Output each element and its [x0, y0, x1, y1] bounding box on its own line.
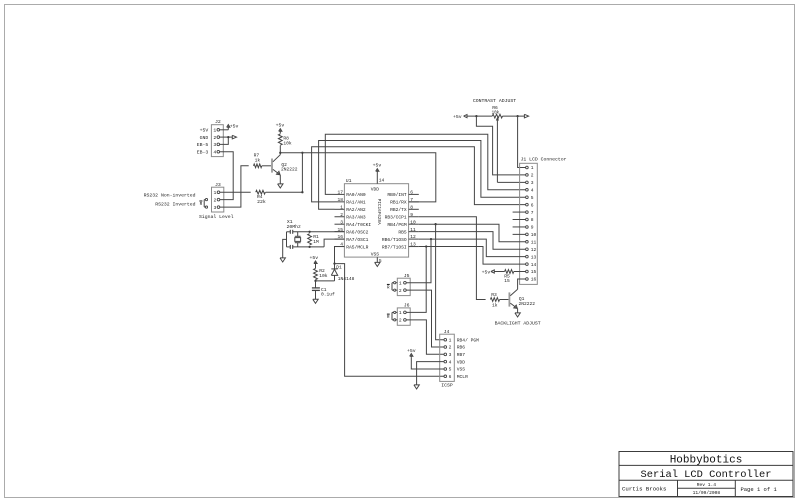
jumper bracket J3 pins 2-3: [199, 199, 207, 209]
svg-text:RS232 Inverted: RS232 Inverted: [155, 201, 195, 207]
wire J2 pin4 to J3 pin2: [220, 152, 234, 200]
wire +5V to J1 pin2: [476, 116, 525, 175]
wire Q2 collector: [279, 146, 281, 155]
svg-text:10: 10: [410, 219, 416, 225]
wire Q2 emitter to ground: [279, 175, 281, 184]
IC U1 VSS pin 5: [371, 251, 382, 264]
wire RA1 to J1 pin6: [312, 147, 526, 205]
transistor Q2 2N2222: [272, 155, 298, 175]
wire J5 pin2 to J4 pin2: [406, 290, 444, 347]
IC U1 part name: [376, 199, 381, 225]
resistor R8: [278, 134, 292, 146]
wire collector line to RB1/RX: [280, 153, 436, 202]
svg-text:2: 2: [531, 173, 534, 179]
svg-text:J4: J4: [444, 329, 450, 335]
svg-text:6: 6: [531, 202, 534, 208]
wire R5 to J1 pin15: [514, 271, 526, 273]
svg-text:Page 1 of 1: Page 1 of 1: [740, 486, 777, 493]
svg-text:RB7: RB7: [457, 352, 466, 358]
svg-text:RB4/PGM: RB4/PGM: [387, 222, 407, 228]
svg-text:1M: 1M: [313, 239, 319, 245]
svg-text:18: 18: [337, 197, 343, 203]
ground at C1: [313, 299, 318, 303]
jumper J5: [387, 273, 410, 296]
wire +5V to R5: [494, 271, 504, 273]
svg-text:R4: R4: [257, 194, 263, 200]
resistor R5: [504, 270, 514, 284]
svg-text:1N4148: 1N4148: [338, 276, 355, 282]
junction J2 pins 2-3: [227, 136, 229, 138]
svg-text:RB7/T1OSI: RB7/T1OSI: [382, 244, 407, 250]
label Signal Level: [199, 214, 234, 220]
svg-text:17: 17: [337, 190, 343, 196]
svg-text:13: 13: [410, 242, 416, 248]
junction MCLR node: [333, 262, 335, 264]
resistor R7: [254, 153, 262, 168]
svg-text:1: 1: [213, 128, 216, 134]
svg-text:3: 3: [340, 219, 343, 225]
ground at crystal: [280, 258, 285, 262]
svg-text:J1 LCD Connector: J1 LCD Connector: [521, 157, 567, 163]
label BACKLIGHT ADJUST: [495, 321, 541, 327]
label RS232 Non-inverted: [144, 192, 196, 198]
svg-text:1: 1: [340, 204, 343, 210]
svg-text:RB1/RX: RB1/RX: [390, 200, 407, 206]
label RS232 Inverted: [155, 201, 195, 207]
power +5V at R5: [482, 269, 495, 275]
svg-text:VSS: VSS: [457, 367, 466, 373]
IC U1 VDD pin 14: [371, 174, 385, 192]
svg-text:6: 6: [410, 190, 413, 196]
svg-text:11: 11: [410, 227, 416, 233]
junction RB6: [430, 238, 432, 240]
potentiometer R6: [492, 105, 503, 118]
svg-text:1: 1: [531, 165, 534, 171]
junction R1 bottom: [308, 246, 310, 248]
svg-text:3: 3: [213, 142, 216, 148]
port arrow at J2 pin2: [232, 135, 236, 139]
svg-text:RA7/OSC1: RA7/OSC1: [346, 237, 368, 243]
svg-text:3: 3: [213, 205, 216, 211]
svg-text:22k: 22k: [257, 199, 266, 205]
wire RA0 to J1 pin4: [325, 134, 525, 194]
svg-text:2N2222: 2N2222: [519, 301, 536, 307]
svg-text:15: 15: [504, 278, 510, 284]
svg-text:RB5: RB5: [398, 229, 407, 235]
svg-text:U1: U1: [346, 178, 352, 184]
resistor R4: [256, 190, 266, 205]
ground at Q2 emitter: [278, 184, 283, 188]
wire J3 pin1 to R4: [220, 191, 251, 193]
wire J4 pin5 to +5V: [411, 358, 444, 369]
resistor R2: [314, 268, 328, 280]
stub J1 pin10: [513, 233, 526, 235]
power +5V at J4: [407, 348, 416, 358]
svg-text:Rev 1.4: Rev 1.4: [697, 482, 717, 488]
svg-text:2: 2: [213, 197, 216, 203]
svg-text:7: 7: [531, 210, 534, 216]
ground at U1 VSS: [375, 262, 380, 266]
junction R1 top: [308, 231, 310, 233]
svg-text:14: 14: [379, 178, 385, 184]
junction R2/C1/D1: [314, 280, 316, 282]
svg-text:+5v: +5v: [407, 348, 416, 354]
svg-text:Serial LCD Controller: Serial LCD Controller: [641, 469, 772, 481]
svg-text:10k: 10k: [492, 111, 500, 116]
svg-text:2: 2: [399, 288, 402, 294]
ground at Q1 emitter: [515, 313, 520, 317]
power +5V at U1 VDD: [373, 163, 382, 174]
svg-text:1k: 1k: [255, 158, 261, 164]
stub J1 pin7: [513, 211, 526, 213]
svg-text:+5v: +5v: [309, 255, 318, 261]
power +5V at J2: [227, 123, 239, 129]
svg-text:RA3/AN3: RA3/AN3: [346, 214, 366, 220]
svg-text:2: 2: [399, 318, 402, 324]
svg-text:RB0/INT: RB0/INT: [387, 192, 407, 198]
capacitor C1: [312, 281, 335, 299]
svg-text:RB6: RB6: [457, 345, 466, 351]
wire pot right: [503, 115, 525, 117]
svg-text:5: 5: [531, 195, 534, 201]
wire J6 pin2 to J4 pin3: [406, 320, 444, 354]
junction RX at R4 line: [301, 191, 303, 193]
svg-text:VDD: VDD: [457, 359, 466, 365]
svg-text:ICSP: ICSP: [441, 382, 453, 388]
svg-text:6: 6: [449, 374, 452, 380]
svg-text:Hobbybotics: Hobbybotics: [670, 454, 743, 466]
svg-text:R6: R6: [492, 105, 498, 111]
connector J3 pins: [213, 190, 219, 211]
svg-text:1: 1: [399, 280, 402, 286]
svg-text:+5v: +5v: [482, 269, 491, 275]
svg-text:14: 14: [531, 262, 537, 268]
IC U1 left pins: [335, 190, 372, 251]
svg-text:VSS: VSS: [371, 251, 380, 257]
svg-text:20Mhz: 20Mhz: [287, 224, 302, 230]
title block: [619, 452, 793, 497]
svg-text:9: 9: [410, 212, 413, 218]
wire OSC2 line: [293, 231, 345, 233]
svg-text:RB2/TX: RB2/TX: [390, 207, 407, 213]
svg-text:3: 3: [449, 352, 452, 358]
svg-text:R: R: [200, 202, 203, 207]
wire +5V to pot: [467, 115, 492, 117]
svg-text:RB3/CCP1: RB3/CCP1: [385, 214, 407, 220]
svg-text:+5v: +5v: [373, 163, 382, 169]
svg-text:8: 8: [410, 204, 413, 210]
jumper J6: [387, 303, 410, 326]
svg-text:J5: J5: [404, 273, 410, 279]
svg-text:PIC16F628A: PIC16F628A: [376, 199, 381, 225]
svg-text:8: 8: [531, 217, 534, 223]
wire MCLR from U1: [335, 247, 345, 264]
wire RB3 to R3: [419, 217, 486, 300]
svg-text:11: 11: [531, 240, 537, 246]
svg-text:BACKLIGHT ADJUST: BACKLIGHT ADJUST: [495, 321, 541, 327]
wire crystal ground tap: [283, 239, 287, 258]
wire MCLR to J4 pin6: [335, 264, 445, 377]
port arrow at contrast: [524, 114, 528, 118]
wire R3 to Q1 base: [500, 299, 509, 301]
wire RB4 to J1 pin11: [419, 224, 526, 242]
svg-text:EB-5: EB-5: [197, 142, 209, 148]
svg-text:+5v: +5v: [453, 114, 462, 120]
svg-text:RA4/T0CKI: RA4/T0CKI: [346, 222, 371, 228]
wire RB5 to J1 pin12: [419, 232, 526, 250]
wire J4 pin4 to ground: [417, 362, 444, 385]
wire crystal left: [286, 232, 288, 247]
resistor R3: [490, 292, 499, 308]
svg-text:+5v: +5v: [230, 123, 239, 129]
wire RB7 to J6 pin1: [406, 247, 426, 313]
crystal X1 symbol: [295, 232, 301, 247]
transistor Q1 2N2222: [509, 289, 535, 308]
svg-text:EB-3: EB-3: [197, 149, 209, 155]
connector J2 labels: [197, 128, 209, 156]
svg-text:J3: J3: [215, 182, 221, 188]
capacitor C2: [287, 230, 293, 234]
svg-text:2: 2: [213, 135, 216, 141]
label CONTRAST ADJUST: [473, 98, 516, 104]
svg-text:0.1uf: 0.1uf: [321, 292, 335, 298]
power +5V at R2: [309, 255, 318, 268]
svg-text:16: 16: [531, 277, 537, 283]
svg-text:13: 13: [531, 254, 537, 260]
svg-text:J6: J6: [404, 303, 410, 309]
svg-text:1k: 1k: [492, 302, 498, 308]
wire RB7 to J1 pin14: [419, 247, 526, 265]
svg-text:15: 15: [531, 269, 537, 275]
connector J3 box: [212, 182, 224, 212]
svg-text:7: 7: [410, 197, 413, 203]
junction RB4: [434, 223, 436, 225]
wire Q1 collector to J1 pin16: [518, 279, 526, 289]
junction RX on collector line: [301, 152, 303, 154]
svg-text:1: 1: [213, 190, 216, 196]
stub J1 pin8: [513, 219, 526, 221]
svg-text:12: 12: [410, 234, 416, 240]
svg-text:RS232 Non-inverted: RS232 Non-inverted: [144, 192, 196, 198]
wire R4 to RX node: [266, 191, 303, 193]
svg-text:4: 4: [531, 187, 534, 193]
wire gnd to J1 pin1: [518, 116, 526, 167]
svg-text:2: 2: [449, 345, 452, 351]
stub J1 pin9: [513, 226, 526, 228]
svg-text:3: 3: [531, 180, 534, 186]
svg-text:11/09/2008: 11/09/2008: [693, 490, 721, 496]
wire J2 pin3 to pin2 net: [220, 137, 229, 144]
svg-text:RA2/AN2: RA2/AN2: [346, 207, 366, 213]
junction Q2 collector: [279, 152, 281, 154]
wire J3 pin3 to R7: [220, 166, 249, 207]
junction contrast +5V: [475, 115, 477, 117]
crystal X1 labels: [287, 219, 302, 230]
svg-text:4: 4: [213, 149, 216, 155]
svg-text:RB4/ PGM: RB4/ PGM: [457, 337, 479, 343]
wire RB6 to J5 pin1: [406, 239, 431, 283]
connector J2 box: [211, 119, 223, 156]
svg-text:+5v: +5v: [276, 123, 285, 129]
connector J4 pins: [444, 337, 479, 380]
wire RA2 to J1 pin5: [319, 141, 526, 210]
resistor R1: [308, 234, 319, 245]
diode D1 1N4148: [331, 264, 354, 283]
wire RB6 to J1 pin13: [419, 239, 526, 257]
svg-text:1: 1: [449, 337, 452, 343]
power +5V at contrast: [453, 114, 467, 120]
wire R7 to Q2 base: [262, 165, 271, 167]
wire D1 anode to R2/C1 node: [316, 280, 335, 282]
svg-text:D1: D1: [336, 264, 342, 270]
svg-text:10: 10: [531, 232, 537, 238]
svg-text:J2: J2: [215, 119, 221, 125]
ground at J4: [414, 385, 419, 389]
svg-text:10k: 10k: [319, 273, 328, 279]
svg-text:RA6/OSC2: RA6/OSC2: [346, 229, 368, 235]
wire RB4 to J4 pin1: [436, 224, 444, 340]
svg-text:MCLR: MCLR: [457, 374, 468, 380]
svg-text:9: 9: [531, 225, 534, 231]
svg-text:GND: GND: [200, 135, 209, 141]
connector J4 box: [440, 329, 455, 389]
svg-text:2N2222: 2N2222: [281, 167, 298, 173]
IC U1 PIC16F628 box: [344, 178, 408, 257]
connector J1 pins: [526, 165, 537, 282]
svg-text:RA1/AN1: RA1/AN1: [346, 200, 366, 206]
svg-text:4: 4: [449, 359, 452, 365]
power +5V at R8: [276, 123, 285, 134]
junction contrast gnd: [516, 115, 518, 117]
svg-text:5: 5: [449, 367, 452, 373]
wire Q1 emitter to ground: [517, 309, 519, 313]
IC U1 right pins: [382, 190, 419, 251]
connector J2 pins: [213, 128, 219, 156]
svg-text:1: 1: [399, 310, 402, 316]
wire J2 pin1 to +5V: [220, 129, 229, 131]
junction RB7: [425, 245, 427, 247]
svg-text:Signal Level: Signal Level: [199, 214, 234, 220]
connector J1 box: [520, 157, 567, 285]
capacitor C3: [287, 245, 293, 249]
svg-text:R3: R3: [491, 292, 497, 298]
svg-text:10k: 10k: [283, 140, 292, 146]
svg-text:2: 2: [340, 212, 343, 218]
wire J2 pin2 to port: [220, 136, 233, 138]
svg-text:RB6/T1OSO: RB6/T1OSO: [382, 237, 407, 243]
wire OSC1 line: [293, 239, 345, 247]
svg-text:Curtis Brooks: Curtis Brooks: [622, 485, 666, 492]
wire pot wiper to J1 pin3: [496, 118, 525, 182]
svg-text:+5V: +5V: [200, 128, 209, 134]
svg-text:RA5/MCLR: RA5/MCLR: [346, 244, 368, 250]
svg-text:CONTRAST ADJUST: CONTRAST ADJUST: [473, 98, 516, 104]
svg-text:RA0/AN0: RA0/AN0: [346, 192, 366, 198]
wire RX vertical: [301, 153, 303, 192]
svg-text:VDD: VDD: [371, 186, 380, 192]
svg-text:12: 12: [531, 247, 537, 253]
